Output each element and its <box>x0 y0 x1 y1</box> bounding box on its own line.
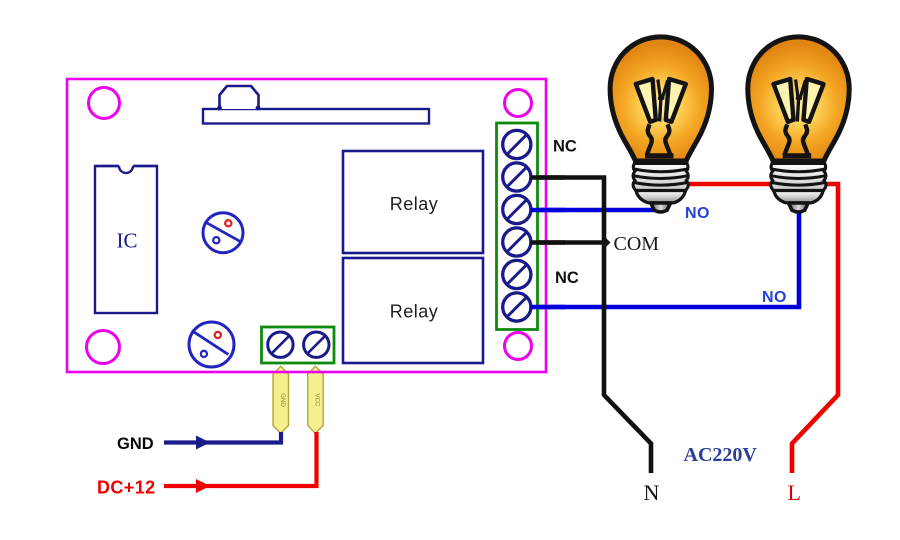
svg-text:N: N <box>644 480 660 505</box>
svg-text:GND: GND <box>279 393 286 407</box>
svg-text:IC: IC <box>117 229 138 253</box>
svg-text:Relay: Relay <box>390 194 439 214</box>
svg-text:GND: GND <box>117 435 154 453</box>
svg-text:AC220V: AC220V <box>684 444 758 466</box>
svg-text:NC: NC <box>555 269 579 287</box>
svg-text:L: L <box>788 480 801 505</box>
svg-text:DC+12: DC+12 <box>97 478 156 498</box>
svg-text:Relay: Relay <box>390 302 439 322</box>
svg-text:NC: NC <box>553 138 577 156</box>
svg-text:VCC: VCC <box>314 393 321 407</box>
svg-text:COM: COM <box>614 233 660 255</box>
svg-text:NO: NO <box>762 289 787 306</box>
svg-text:NO: NO <box>685 205 710 222</box>
